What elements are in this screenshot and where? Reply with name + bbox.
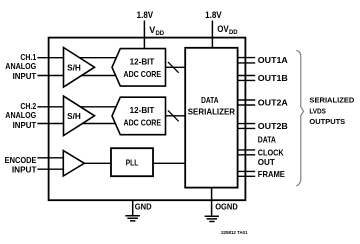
- wire OUT2A pair: [238, 100, 256, 105]
- wire OVDD pin: [211, 21, 213, 48]
- svg-text:LVDS: LVDS: [309, 107, 326, 116]
- svg-text:DD: DD: [156, 30, 165, 37]
- wire FRAME pair: [238, 171, 256, 176]
- node OUT1B label: [258, 73, 288, 83]
- svg-text:INPUT: INPUT: [12, 165, 37, 175]
- wire OUT1B pair: [238, 76, 256, 81]
- svg-text:GND: GND: [135, 202, 152, 212]
- svg-text:OUT1B: OUT1B: [258, 73, 288, 83]
- svg-text:OGND: OGND: [215, 202, 238, 212]
- svg-text:OUTPUTS: OUTPUTS: [309, 117, 345, 126]
- wire OGND pin: [211, 188, 213, 216]
- svg-text:S/H: S/H: [67, 111, 81, 121]
- node GND label: [135, 202, 152, 212]
- svg-text:225812 TA01: 225812 TA01: [221, 230, 248, 235]
- wire OUT1A pair: [238, 58, 256, 63]
- ground symbol OGND: [205, 216, 219, 221]
- svg-text:FRAME: FRAME: [258, 169, 286, 179]
- wire GND pin: [132, 200, 134, 215]
- block 12-BIT ADC CORE 1: [112, 49, 166, 87]
- svg-text:ANALOG: ANALOG: [5, 110, 36, 120]
- node OVDD label: [217, 24, 238, 36]
- note figure number: [221, 230, 248, 235]
- wire ADC2 bus to serializer: [166, 110, 186, 121]
- node ENCODE INPUT label: [5, 155, 37, 175]
- svg-text:12-BIT: 12-BIT: [130, 105, 155, 115]
- svg-text:ENCODE: ENCODE: [5, 155, 37, 165]
- node OUT2A label: [258, 98, 288, 108]
- brace grouping LVDS outputs: [296, 50, 303, 186]
- svg-text:OV: OV: [217, 24, 229, 34]
- svg-text:DATA: DATA: [258, 135, 276, 145]
- wire encode buffer to PLL: [84, 162, 111, 164]
- wire OUT2B pair: [238, 124, 256, 129]
- svg-text:OUT: OUT: [258, 157, 275, 167]
- svg-text:OUT1A: OUT1A: [258, 55, 288, 65]
- wire CH2 input pair: [37, 107, 118, 124]
- node OGND label: [215, 202, 238, 212]
- node SERIALIZED LVDS OUTPUTS label: [309, 96, 355, 127]
- svg-text:1.8V: 1.8V: [205, 10, 222, 20]
- wire PLL to serializer: [153, 162, 185, 164]
- node OUT1A label: [258, 55, 288, 65]
- svg-text:1.8V: 1.8V: [137, 10, 154, 20]
- svg-text:S/H: S/H: [67, 62, 81, 72]
- svg-text:SERIALIZER: SERIALIZER: [188, 107, 235, 117]
- wire VDD pin: [143, 21, 145, 49]
- svg-text:SERIALIZED: SERIALIZED: [309, 96, 355, 105]
- node 1.8V label (OVDD): [205, 10, 222, 20]
- svg-text:12-BIT: 12-BIT: [130, 56, 155, 66]
- node OUT2B label: [258, 121, 288, 131]
- amplifier S/H 2: [64, 96, 95, 136]
- node 1.8V label (VDD): [137, 10, 154, 20]
- node DATA CLOCK OUT label: [258, 135, 284, 168]
- svg-text:V: V: [149, 25, 155, 35]
- node CH.2 ANALOG INPUT label: [5, 101, 36, 130]
- node FRAME label: [258, 169, 286, 179]
- svg-text:INPUT: INPUT: [13, 71, 37, 81]
- svg-text:OUT2A: OUT2A: [258, 98, 288, 108]
- block 12-BIT ADC CORE 2: [112, 97, 166, 135]
- svg-text:DATA: DATA: [201, 95, 218, 105]
- svg-text:ANALOG: ANALOG: [5, 61, 36, 71]
- wire DATA CLOCK OUT pair: [238, 150, 256, 155]
- buffer ENCODE: [63, 151, 84, 176]
- svg-text:CLOCK: CLOCK: [258, 147, 284, 157]
- wire CH1 input pair: [37, 58, 118, 76]
- node CH.1 ANALOG INPUT label: [5, 52, 36, 81]
- svg-text:ADC CORE: ADC CORE: [124, 69, 162, 79]
- svg-text:PLL: PLL: [126, 158, 139, 168]
- svg-text:ADC CORE: ADC CORE: [124, 118, 162, 128]
- node VDD label: [149, 25, 164, 37]
- ground symbol GND: [125, 216, 139, 221]
- block DATA SERIALIZER: [185, 48, 237, 188]
- wire ENCODE input pair: [37, 158, 63, 169]
- svg-text:DD: DD: [229, 29, 238, 36]
- svg-text:INPUT: INPUT: [13, 120, 37, 130]
- svg-text:OUT2B: OUT2B: [258, 121, 288, 131]
- amplifier S/H 1: [64, 48, 95, 88]
- wire ADC1 bus to serializer: [166, 62, 186, 73]
- outer chip box: [49, 38, 246, 201]
- block PLL: [111, 148, 153, 176]
